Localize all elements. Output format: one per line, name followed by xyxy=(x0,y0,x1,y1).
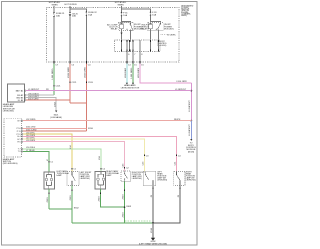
wire row1 salmon xyxy=(23,127,87,129)
connector on green wire xyxy=(54,85,61,88)
wire pink leveling feed xyxy=(140,63,191,83)
label box B xyxy=(80,172,92,180)
svg-text:L950 18PK: L950 18PK xyxy=(177,81,188,83)
wire magenta PK/VT row xyxy=(26,90,191,92)
svg-text:MENT): MENT) xyxy=(181,15,187,17)
svg-text:L92 18RD: L92 18RD xyxy=(26,119,36,121)
svg-text:LEVELING): LEVELING) xyxy=(80,178,90,180)
wire relay K2 outputs xyxy=(149,29,151,40)
svg-text:BATT A1: BATT A1 xyxy=(16,89,23,92)
wire fuse F1 output xyxy=(53,17,55,62)
wire red Z013 from pin C5 xyxy=(69,63,71,103)
svg-text:10A: 10A xyxy=(152,14,156,17)
svg-text:L9 18PK/VT: L9 18PK/VT xyxy=(189,124,191,136)
svg-text:LEVELING): LEVELING) xyxy=(157,180,167,182)
red horizontal link xyxy=(70,102,86,104)
wire green from box A down xyxy=(48,189,50,209)
page border frame xyxy=(2,2,197,245)
wire branch to relay2 xyxy=(122,9,151,11)
svg-text:Z910: Z910 xyxy=(123,194,125,200)
svg-text:L44 18PK: L44 18PK xyxy=(26,135,36,137)
svg-text:15A: 15A xyxy=(88,14,92,17)
wire green from box C down xyxy=(100,189,124,207)
svg-text:L50 18LG: L50 18LG xyxy=(26,147,36,149)
svg-text:Z910: Z910 xyxy=(151,227,153,233)
svg-text:L33 18PK: L33 18PK xyxy=(26,140,36,142)
ground symbol G302 xyxy=(151,238,155,241)
wire black from box D down xyxy=(152,185,154,223)
headlamp leveling switch box xyxy=(8,84,25,102)
pin C4 (fuse2 out) xyxy=(86,61,91,67)
label INTEGRATED POWER MODULE (right margin) xyxy=(181,4,194,17)
connector on red wire xyxy=(70,81,77,84)
svg-text:Z011 12RD: Z011 12RD xyxy=(26,129,37,131)
pin P7 (green) xyxy=(133,61,137,67)
label box C2 right xyxy=(132,172,146,180)
svg-text:Z011 12RD: Z011 12RD xyxy=(85,67,87,78)
wire relay2 feed xyxy=(150,11,152,13)
connector pins pass-through wires xyxy=(122,40,159,52)
svg-text:H 4: H 4 xyxy=(18,136,21,138)
svg-text:C120: C120 xyxy=(88,82,94,84)
connector pin numbers below box xyxy=(128,54,143,56)
wire branch to fuse F2 xyxy=(70,9,86,12)
switch box E xyxy=(174,171,185,185)
wire black from box E down xyxy=(153,185,180,223)
svg-text:S303: S303 xyxy=(126,206,132,208)
label under box1 xyxy=(3,103,15,113)
svg-text:L961 18DG: L961 18DG xyxy=(52,68,54,79)
connectors on bottom feed wires xyxy=(49,155,177,170)
svg-text:RELAY: RELAY xyxy=(141,28,148,31)
svg-text:TIMES: TIMES xyxy=(117,4,124,6)
wire row C red xyxy=(26,99,70,101)
wire relay K1 coil output with connector arrow xyxy=(121,29,123,40)
connector labels on feed wires xyxy=(50,155,181,170)
wire relay1 coil feed + switch branch xyxy=(121,16,123,24)
svg-text:MODULE): MODULE) xyxy=(164,28,174,30)
svg-text:L950 18PK: L950 18PK xyxy=(138,67,140,78)
junction dot pink/magenta xyxy=(190,90,192,92)
wire relay K1 switch outputs xyxy=(129,29,131,40)
svg-text:Z910: Z910 xyxy=(123,212,125,218)
svg-text:(LUGGAGE): (LUGGAGE) xyxy=(50,116,62,119)
wire green leveling motor 2 xyxy=(132,63,134,83)
wire light green dashed (with leveling) xyxy=(125,220,152,222)
wire circuit breaker feed xyxy=(69,6,71,12)
wire row3 yellow to box B xyxy=(23,134,72,171)
wires from connector box to IPM bottom xyxy=(127,52,140,63)
svg-text:LEVELING): LEVELING) xyxy=(3,111,14,113)
pin P8 (pink) xyxy=(140,61,144,67)
svg-text:Z910: Z910 xyxy=(47,197,49,203)
svg-text:L9 18PK/VT: L9 18PK/VT xyxy=(189,100,191,112)
wire circuit breaker output xyxy=(69,17,71,62)
label box E right xyxy=(186,172,196,182)
wire fuse F2 output xyxy=(85,16,87,62)
label relay K1 left xyxy=(107,23,118,30)
circuit breaker CB1 xyxy=(69,12,79,18)
svg-text:(W/ LEVELING): (W/ LEVELING) xyxy=(3,163,18,165)
wire pink vertical right xyxy=(190,83,192,121)
label FRONT CONTROL MODULE xyxy=(158,41,167,47)
wire row2 red xyxy=(23,130,87,132)
wire row4 pink to box E xyxy=(23,136,177,171)
svg-text:LAMP: LAMP xyxy=(106,174,112,177)
junction dot ground xyxy=(152,222,154,224)
footnote legend WITH HEADLAMP LEVELING xyxy=(161,35,176,37)
connector on red wire 2 xyxy=(86,81,93,84)
relay K1 dashed box xyxy=(118,23,133,31)
label box D right xyxy=(157,172,167,182)
fuse F4 (relay2) xyxy=(150,12,158,17)
label under blue arrow xyxy=(186,143,197,154)
switch box D xyxy=(143,171,155,185)
label box A xyxy=(57,170,70,177)
wire green rail xyxy=(72,222,153,224)
svg-text:L9 18PK/VT: L9 18PK/VT xyxy=(28,89,40,91)
wire black ground drop xyxy=(152,223,154,238)
label relay K2 right xyxy=(164,24,174,30)
svg-text:P 11: P 11 xyxy=(17,131,21,133)
svg-text:S302: S302 xyxy=(74,207,80,209)
svg-text:10A: 10A xyxy=(56,15,60,18)
svg-text:HOT IN RUN: HOT IN RUN xyxy=(64,4,77,6)
wire row5 pale yellow to box D xyxy=(23,139,145,171)
wire row A light xyxy=(26,94,54,96)
svg-text:Z910: Z910 xyxy=(70,195,72,201)
svg-text:10A: 10A xyxy=(123,14,127,17)
wire red Z01 from pin C4 xyxy=(85,63,87,131)
svg-text:L7 18GN: L7 18GN xyxy=(26,150,35,152)
svg-text:L9 18PK/VT: L9 18PK/VT xyxy=(175,89,187,91)
splice S421 arrow xyxy=(55,111,57,113)
svg-text:H 6: H 6 xyxy=(18,141,21,143)
wire light blue leveling motor 1 xyxy=(126,63,128,83)
pin labels box2 xyxy=(17,120,21,153)
svg-text:L961 18DG: L961 18DG xyxy=(131,67,133,78)
svg-text:RELAY: RELAY xyxy=(111,28,118,31)
connector pin marks xyxy=(122,40,159,51)
label box C xyxy=(106,170,119,177)
wire relay2 coil feed + switch branch xyxy=(150,16,152,24)
label HOT AT ALL TIMES (relay feed) xyxy=(115,1,127,7)
wire row0 salmon to right junction xyxy=(23,120,192,122)
svg-text:LEVELING MOTOR: LEVELING MOTOR xyxy=(121,87,140,89)
svg-text:T 8: T 8 xyxy=(18,151,21,153)
svg-text:LEVELING): LEVELING) xyxy=(132,178,142,180)
relay K1 coil xyxy=(120,24,123,29)
label HOT IN RUN xyxy=(64,4,77,6)
svg-text:S310: S310 xyxy=(88,128,94,130)
svg-text:C121: C121 xyxy=(72,82,78,84)
lamp box A xyxy=(44,172,55,189)
svg-text:Z910: Z910 xyxy=(99,196,101,202)
wire green from box C2 down xyxy=(124,181,126,223)
svg-text:LEVELING): LEVELING) xyxy=(186,180,196,182)
fuse F3 (relay1) xyxy=(121,12,129,17)
svg-text:Z011 2RD: Z011 2RD xyxy=(26,127,36,129)
svg-text:* W/ LEVEL: * W/ LEVEL xyxy=(166,35,176,37)
relay K2 dashed box xyxy=(148,23,163,31)
wire relay1 feed xyxy=(121,6,123,12)
pin circles box1 xyxy=(25,90,26,101)
svg-text:TIMES: TIMES xyxy=(51,5,58,7)
junction dot row0 xyxy=(190,120,192,122)
svg-text:LAMP: LAMP xyxy=(57,174,63,177)
headlamp switch dashed box xyxy=(4,118,22,157)
relay K2 contact xyxy=(156,23,161,29)
svg-text:L960 18LB: L960 18LB xyxy=(125,67,127,78)
svg-text:ILL B4: ILL B4 xyxy=(18,100,23,102)
label under box2 xyxy=(3,158,18,165)
svg-text:Z013 12RD: Z013 12RD xyxy=(28,98,39,100)
lamp box C xyxy=(95,171,106,189)
svg-text:(BCM): (BCM) xyxy=(188,151,194,153)
svg-text:C121: C121 xyxy=(56,85,62,87)
wire green horizontal A to B xyxy=(49,208,72,210)
wire row8 green to box A xyxy=(23,152,49,173)
svg-text:20A: 20A xyxy=(72,15,76,18)
switch box C2 xyxy=(121,171,131,182)
svg-text:(LEFT REAR WHEELHOUSE): (LEFT REAR WHEELHOUSE) xyxy=(139,242,167,245)
relay K2 coil xyxy=(149,24,152,29)
svg-text:P 10: P 10 xyxy=(17,128,21,130)
wire row6 pink to box C2 xyxy=(23,142,125,171)
wire green L961 from pin C7 xyxy=(53,63,55,95)
pin P6 (cyan) xyxy=(127,61,131,67)
wire blue to body control xyxy=(190,121,192,140)
relay K1 contact xyxy=(127,23,134,30)
label relay K2 left xyxy=(141,24,149,30)
svg-text:RD/PK: RD/PK xyxy=(174,119,181,121)
junction dot C/C2 xyxy=(124,206,126,208)
label HOT AT ALL TIMES (left) xyxy=(49,1,61,7)
pin C6 (CB out) xyxy=(70,61,75,67)
integrated power module dashed box xyxy=(47,7,180,62)
switch box B xyxy=(67,171,79,185)
svg-text:B 9: B 9 xyxy=(18,120,21,122)
pin circles box2 xyxy=(21,120,22,152)
wire row B light, turns down to splice xyxy=(26,98,56,111)
fuse F2 xyxy=(86,11,98,16)
svg-text:Z013 12RD: Z013 12RD xyxy=(68,67,70,78)
connector dashed box inside IPM xyxy=(115,40,161,52)
label relay K1 right xyxy=(134,24,144,30)
wire fuse F1 feed xyxy=(53,6,55,12)
wire green from box B down xyxy=(71,185,73,223)
wire row7 light green to box C xyxy=(23,149,101,172)
label headlamp leveling motor xyxy=(121,84,140,89)
pin C7 (fuse1 out) xyxy=(54,61,59,67)
fuse F1 xyxy=(53,12,65,18)
